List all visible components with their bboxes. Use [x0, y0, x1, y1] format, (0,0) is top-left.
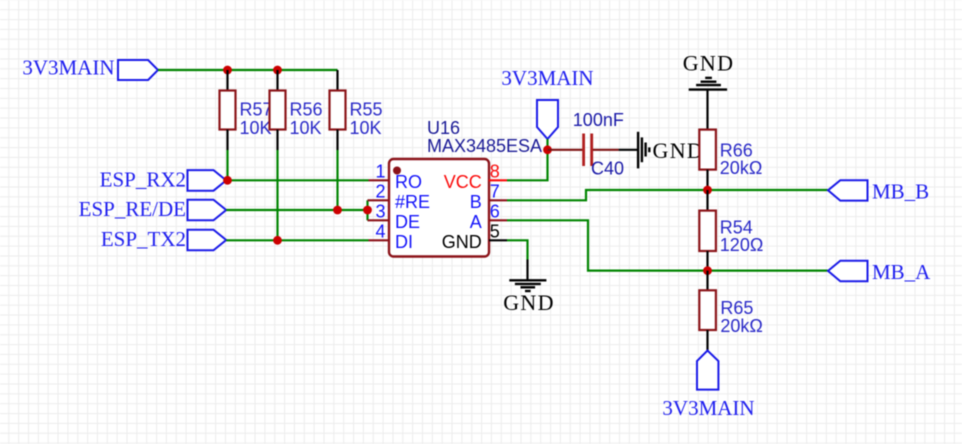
- wire VCC to 3V3MAIN: [507, 139, 548, 180]
- resistor R57: [220, 70, 273, 150]
- svg-text:#RE: #RE: [395, 192, 430, 212]
- resistor R65: [699, 271, 763, 351]
- pin 2 #RE: [368, 182, 431, 212]
- ground GND (below U16): [503, 260, 555, 316]
- pin 4 DI: [369, 222, 414, 252]
- wire 3V3MAIN top rail: [158, 69, 338, 71]
- svg-text:GND: GND: [442, 232, 482, 252]
- wire A to MB_A: [507, 220, 828, 270]
- wire ESP_RE/DE to bracket: [226, 209, 367, 211]
- svg-text:20kΩ: 20kΩ: [720, 158, 762, 178]
- junction on rail at R56: [273, 66, 282, 75]
- junction on rail at R57: [223, 66, 232, 75]
- junction VCC node: [543, 145, 552, 154]
- svg-text:R57: R57: [240, 100, 273, 120]
- svg-text:ESP_TX2: ESP_TX2: [101, 227, 186, 251]
- svg-text:GND: GND: [503, 290, 555, 315]
- wire bracket pin2-pin3: [366, 200, 368, 220]
- junction ESP_TX2 / R56: [273, 236, 282, 245]
- junction ESP_RE/DE / R55: [333, 206, 342, 215]
- svg-text:10K: 10K: [350, 118, 382, 138]
- port ESP_TX2: [101, 227, 226, 251]
- pin 1 RO: [369, 162, 423, 192]
- svg-text:B: B: [470, 192, 482, 212]
- op-amp U1 : IC U16 MAX3485ESA body: [389, 118, 542, 257]
- svg-text:5: 5: [490, 222, 500, 242]
- svg-text:MB_B: MB_B: [872, 180, 929, 204]
- wire R56 to ESP_TX2: [276, 150, 278, 240]
- port MB_A: [828, 260, 931, 284]
- svg-text:R56: R56: [290, 100, 323, 120]
- svg-text:VCC: VCC: [444, 172, 482, 192]
- pin 3 DE: [368, 202, 421, 232]
- pin 6 A: [470, 202, 507, 232]
- svg-text:R55: R55: [350, 100, 383, 120]
- power port 3V3MAIN (bottom): [662, 351, 754, 421]
- wire R55 to ESP_RE/DE: [336, 150, 338, 210]
- junction bracket: [363, 206, 372, 215]
- ground GND (right of C40): [619, 132, 704, 169]
- svg-text:3V3MAIN: 3V3MAIN: [662, 396, 754, 420]
- svg-text:ESP_RE/DE: ESP_RE/DE: [79, 197, 186, 221]
- port ESP_RX2: [100, 167, 227, 191]
- power port 3V3MAIN (above VCC): [501, 66, 593, 139]
- svg-text:A: A: [470, 212, 482, 232]
- svg-text:U16: U16: [427, 118, 460, 138]
- svg-text:3V3MAIN: 3V3MAIN: [22, 56, 114, 80]
- svg-text:R65: R65: [720, 298, 753, 318]
- wire ESP_TX2 to pin4: [226, 239, 368, 241]
- capacitor C40: [548, 110, 625, 179]
- svg-text:GND: GND: [653, 138, 705, 163]
- resistor R56: [270, 70, 323, 150]
- port MB_B: [828, 180, 929, 204]
- svg-text:GND: GND: [683, 51, 735, 76]
- svg-text:7: 7: [490, 182, 500, 202]
- svg-text:4: 4: [375, 222, 385, 242]
- svg-text:3V3MAIN: 3V3MAIN: [501, 66, 593, 90]
- svg-text:100nF: 100nF: [573, 110, 624, 130]
- svg-text:8: 8: [490, 162, 500, 182]
- pin 8 VCC: [444, 162, 507, 192]
- resistor R54: [699, 190, 763, 271]
- resistor R55: [330, 70, 383, 150]
- svg-text:MB_A: MB_A: [872, 260, 931, 284]
- junction MB_A node: [703, 266, 712, 275]
- svg-text:ESP_RX2: ESP_RX2: [100, 167, 186, 191]
- svg-text:MAX3485ESA: MAX3485ESA: [427, 136, 542, 156]
- svg-text:DE: DE: [395, 212, 420, 232]
- ground GND (top right): [683, 51, 735, 130]
- svg-text:20kΩ: 20kΩ: [720, 316, 762, 336]
- svg-text:DI: DI: [395, 232, 413, 252]
- junction ESP_RX2 / R57: [223, 176, 232, 185]
- wire GND pin5: [507, 240, 528, 259]
- wire ESP_RX2 to pin1: [226, 179, 368, 181]
- svg-text:10K: 10K: [240, 118, 272, 138]
- port 3V3MAIN (top-left): [22, 56, 158, 81]
- svg-text:1: 1: [375, 162, 385, 182]
- junction MB_B node: [703, 186, 712, 195]
- svg-text:120Ω: 120Ω: [720, 235, 764, 255]
- svg-text:2: 2: [375, 182, 385, 202]
- wire B to MB_B: [507, 190, 828, 200]
- svg-text:6: 6: [490, 202, 500, 222]
- svg-text:C40: C40: [591, 159, 624, 179]
- svg-text:RO: RO: [395, 172, 422, 192]
- port ESP_RE/DE: [79, 197, 227, 221]
- svg-text:3: 3: [375, 202, 385, 222]
- pin 7 B: [470, 182, 507, 212]
- wire R57 to ESP_RX2: [226, 150, 228, 180]
- svg-text:10K: 10K: [290, 118, 322, 138]
- pin 5 GND: [442, 222, 507, 252]
- resistor R66: [699, 130, 762, 190]
